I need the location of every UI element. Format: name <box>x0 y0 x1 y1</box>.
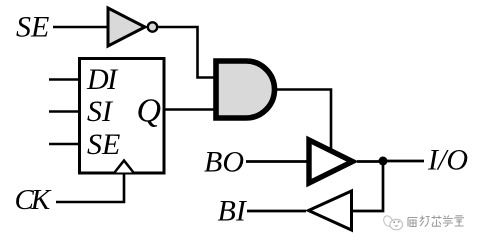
svg-text:CK: CK <box>15 184 52 216</box>
wire BI to receiver output <box>247 210 306 213</box>
wire Q to AND gate bottom input <box>164 108 215 111</box>
svg-text:BO: BO <box>204 146 244 179</box>
junction dot <box>379 157 388 166</box>
clock edge triangle <box>115 161 134 173</box>
watermark logo cat icon <box>384 216 403 230</box>
wire CK to clock pin <box>56 173 124 202</box>
AND gate U3 <box>216 61 275 118</box>
watermark text blocks <box>408 216 464 227</box>
stub DI input <box>49 78 79 81</box>
wire junction down to receiver input <box>353 161 383 211</box>
wire buffer output to junction <box>357 160 383 163</box>
svg-text:Q: Q <box>137 92 162 129</box>
svg-text:I/O: I/O <box>427 144 468 177</box>
stub SE input <box>49 143 79 146</box>
inverter U1 <box>108 8 145 46</box>
wire junction to I/O <box>383 160 424 163</box>
svg-text:SE: SE <box>16 10 49 43</box>
stub SI input <box>49 110 79 113</box>
wire BO to buffer <box>246 160 308 163</box>
flip-flop U2 box <box>80 59 165 174</box>
svg-text:SE: SE <box>87 128 120 161</box>
tri-state buffer U4 <box>309 140 353 183</box>
receiver U5 <box>309 191 352 230</box>
inverter bubble <box>148 22 157 31</box>
svg-text:BI: BI <box>218 195 248 228</box>
wire inverter output to AND gate top input <box>158 27 215 78</box>
wire SE to inverter input <box>53 26 108 29</box>
svg-text:DI: DI <box>86 63 119 96</box>
svg-text:SI: SI <box>87 95 114 128</box>
wire AND output to buffer enable <box>277 90 331 151</box>
